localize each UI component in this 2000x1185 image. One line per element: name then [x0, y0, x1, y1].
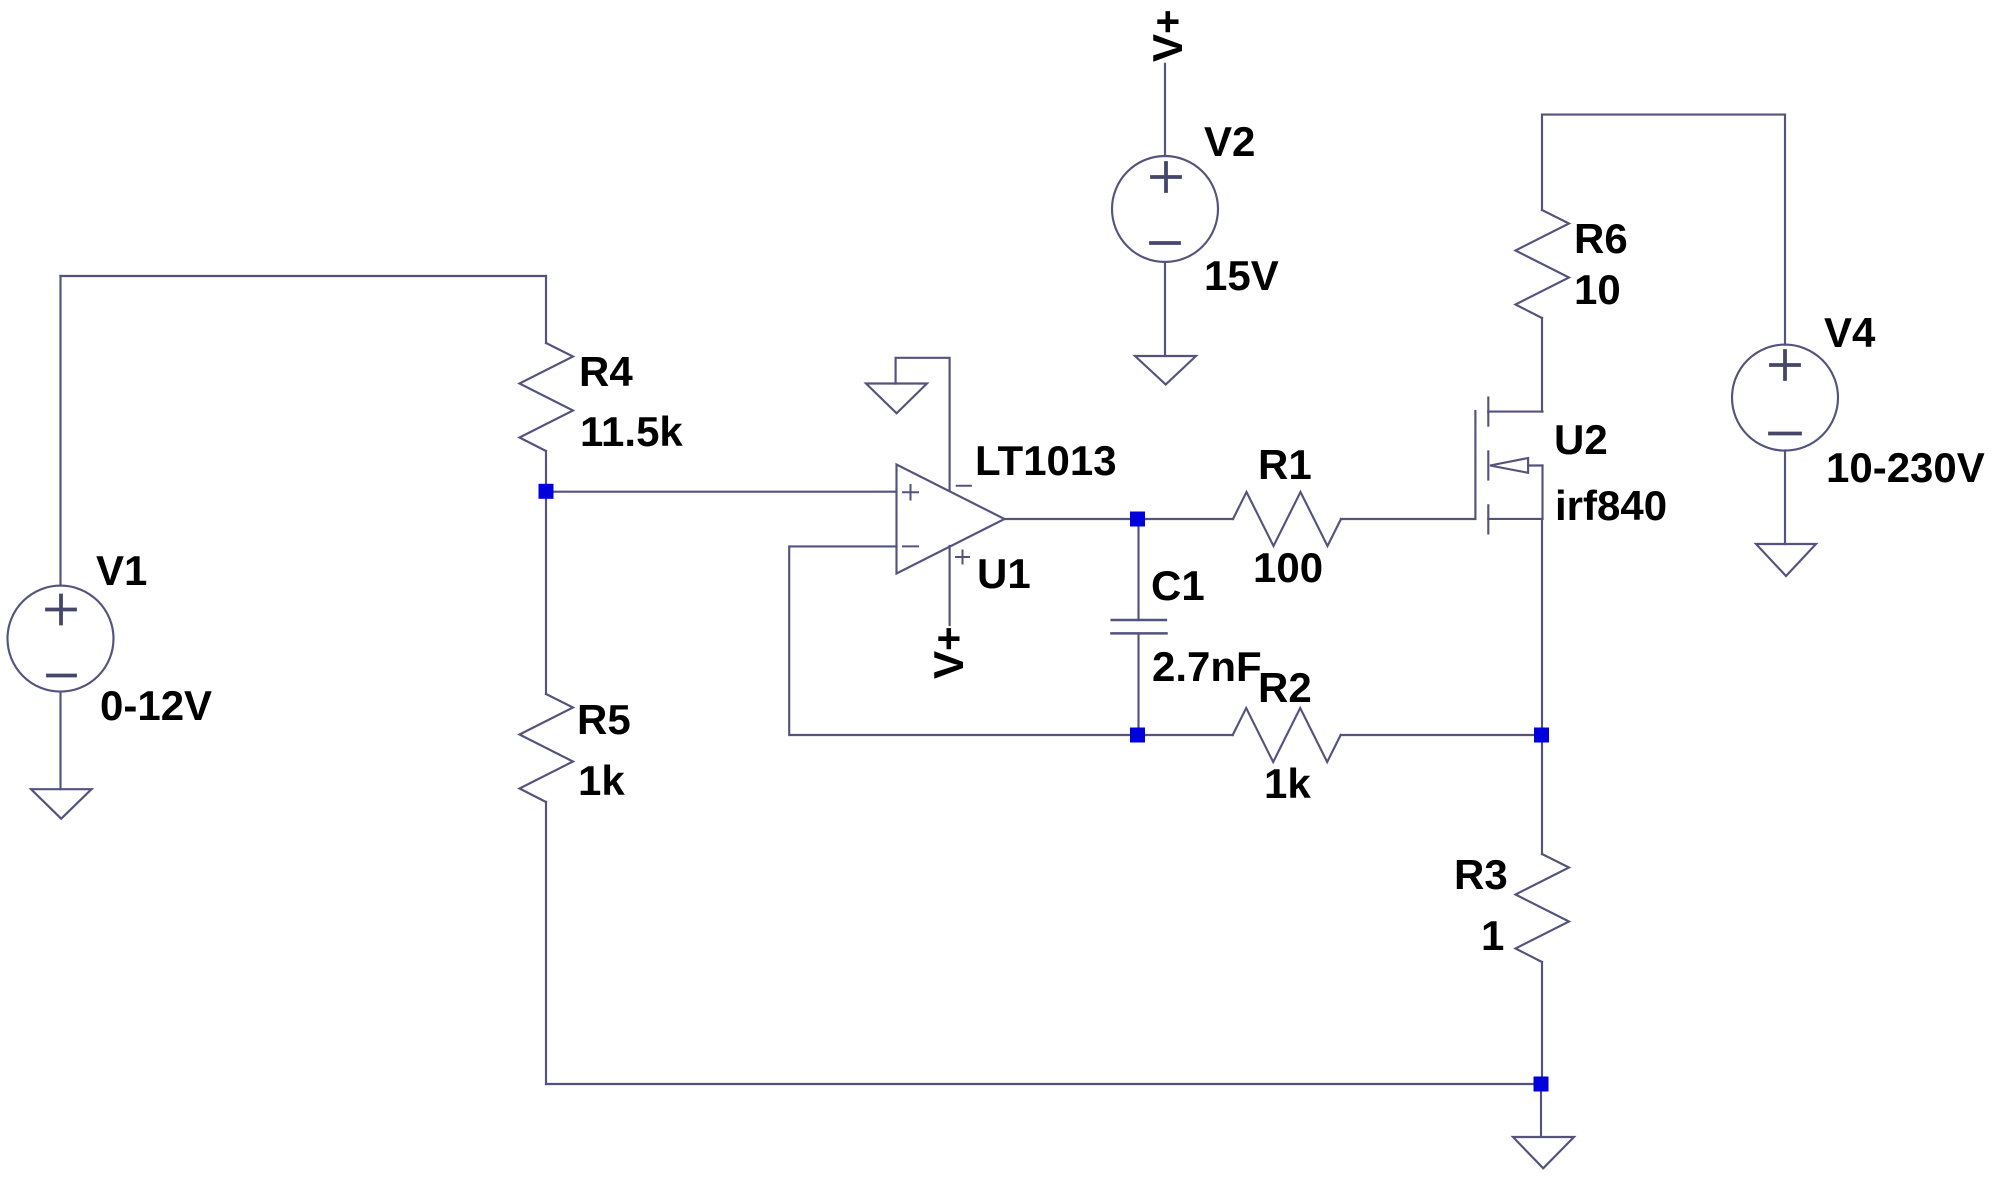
- svg-text:R2: R2: [1258, 664, 1312, 711]
- wire V4 bottom to ground: [1784, 451, 1786, 545]
- node C (C1 bottom / feedback): [1130, 728, 1145, 743]
- svg-text:100: 100: [1253, 544, 1323, 591]
- svg-text:R5: R5: [577, 696, 631, 743]
- svg-text:irf840: irf840: [1555, 482, 1667, 529]
- svg-text:15V: 15V: [1204, 252, 1279, 299]
- svg-text:R3: R3: [1454, 851, 1508, 898]
- wire V4 top vertical: [1784, 115, 1786, 345]
- wire V2 top: [1164, 64, 1166, 156]
- wire V1 bottom to ground: [59, 692, 61, 790]
- resistor R6: [1516, 115, 1570, 412]
- wire top right horizontal: [1542, 114, 1785, 116]
- svg-text:11.5k: 11.5k: [580, 408, 683, 455]
- wire V1 top vertical: [59, 276, 61, 586]
- svg-text:U1: U1: [977, 550, 1031, 597]
- svg-text:10: 10: [1574, 266, 1621, 313]
- resistor R3: [1516, 735, 1570, 1084]
- op-amp input - marker: [903, 545, 918, 547]
- svg-text:U2: U2: [1554, 416, 1608, 463]
- wire feedback loop: [789, 546, 1137, 735]
- svg-text:R4: R4: [579, 348, 633, 395]
- wire mosfet source down to node D: [1541, 519, 1543, 735]
- ground V2: [1135, 356, 1196, 385]
- svg-text:1k: 1k: [1264, 760, 1311, 807]
- node A (R4/R5/op-amp junction): [539, 484, 554, 499]
- op-amp power + marker: [956, 551, 969, 564]
- svg-text:V1: V1: [96, 547, 147, 594]
- wire node E to ground: [1540, 1084, 1542, 1137]
- wire top-left horizontal V1 to R4: [61, 275, 547, 277]
- svg-text:V+: V+: [925, 626, 972, 679]
- op-amp input + marker: [903, 485, 918, 500]
- resistor R2: [1138, 708, 1542, 762]
- svg-text:R6: R6: [1574, 215, 1628, 262]
- svg-text:1k: 1k: [578, 757, 625, 804]
- op-amp power - marker: [957, 485, 971, 487]
- svg-text:V2: V2: [1204, 118, 1255, 165]
- resistor R4: [520, 276, 574, 484]
- wire op-amp V- pin to ground: [896, 358, 950, 491]
- svg-text:2.7nF: 2.7nF: [1152, 643, 1262, 690]
- node E (bottom junction): [1534, 1077, 1549, 1092]
- voltage source V2: [1112, 156, 1218, 262]
- svg-text:V4: V4: [1824, 309, 1876, 356]
- ground V1: [31, 789, 92, 819]
- resistor R5: [520, 499, 574, 1085]
- svg-text:C1: C1: [1151, 562, 1205, 609]
- ground op-amp: [866, 384, 927, 414]
- svg-text:1: 1: [1481, 912, 1504, 959]
- capacitor C1: [1111, 519, 1166, 735]
- svg-text:LT1013: LT1013: [975, 437, 1117, 484]
- svg-text:0-12V: 0-12V: [100, 682, 212, 729]
- svg-text:V+: V+: [1144, 9, 1191, 62]
- wire op-amp V+ pin stub: [949, 546, 951, 625]
- wire bottom horizontal: [546, 1083, 1541, 1085]
- op-amp U1 triangle: [897, 465, 1005, 574]
- ground V4: [1756, 544, 1816, 576]
- svg-text:R1: R1: [1258, 441, 1312, 488]
- node B (op-amp output): [1130, 512, 1145, 527]
- wire node A to op-amp +input: [546, 491, 897, 493]
- wire V2 bottom to ground: [1164, 262, 1166, 356]
- wire R1 to gate: [1341, 518, 1475, 520]
- ground bottom: [1513, 1137, 1574, 1168]
- voltage source V4: [1732, 345, 1838, 451]
- svg-text:10-230V: 10-230V: [1826, 444, 1985, 491]
- node D (source/R2/R3 junction): [1534, 728, 1549, 743]
- transistor U2 (nmos irf840): [1475, 398, 1542, 534]
- resistor R1: [1138, 492, 1342, 546]
- wire op-amp output to node B: [1005, 518, 1138, 520]
- voltage source V1: [8, 586, 114, 692]
